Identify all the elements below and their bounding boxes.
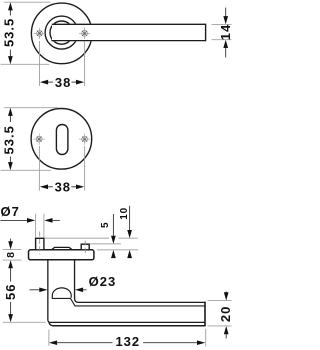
dimension 53.5 top view [2, 2, 17, 64]
dimension 14 extension lines [212, 23, 232, 25]
extension line 38 right (middle view) [84, 146, 86, 191]
svg-text:132: 132 [115, 334, 140, 349]
lever bar top edge [52, 23, 206, 25]
svg-text:Ø23: Ø23 [89, 274, 117, 289]
svg-text:20: 20 [218, 306, 232, 322]
dimension 56 [3, 267, 18, 322]
dimension 38 top view [40, 75, 84, 90]
middle rose circle [31, 109, 92, 170]
dimension 8 extension lines [3, 249, 22, 251]
extension line 38 right (top view) [84, 41, 86, 86]
dimension 5 shaft/arrows [111, 214, 116, 258]
screw symbol middle-left [34, 133, 45, 144]
centre boss bump [52, 247, 72, 249]
left fixing lug [36, 238, 44, 250]
top rose outer circle [31, 3, 92, 64]
extension line top 53.5 lower [1, 63, 50, 65]
hub outer ring [45, 16, 78, 49]
dimension 10 shaft/arrows [127, 206, 132, 258]
svg-text:5: 5 [100, 222, 111, 228]
svg-text:38: 38 [55, 75, 71, 90]
dia 7 dimension line + arrows [1, 218, 60, 223]
extension line top 53.5 upper [4, 1, 51, 3]
neck left + grip bottom inner line [48, 260, 205, 323]
extension line 38 left (middle view) [38, 146, 40, 191]
extension line 38 left (top view) [39, 41, 41, 86]
screw symbol middle-right [79, 133, 90, 144]
extension line middle 53.5 lower [1, 169, 52, 171]
extension line lever bottom (56 ref) [3, 321, 46, 323]
neck right + grip top outer line [75, 260, 206, 303]
svg-text:14: 14 [218, 24, 232, 40]
right fixing lug [81, 244, 89, 250]
svg-text:53.5: 53.5 [2, 125, 17, 154]
screw symbol top-right [79, 28, 90, 39]
grip end dome [52, 288, 71, 298]
dimension 14 [218, 8, 233, 58]
svg-text:56: 56 [3, 284, 18, 300]
grip bottom outer line [49, 323, 205, 326]
hub inner ring [50, 21, 73, 44]
extension line middle 53.5 upper [4, 107, 58, 109]
extension line y=238 (10 upper ref) [44, 237, 138, 239]
lever bar bottom edge [51, 40, 205, 42]
dimension 38 middle view [40, 180, 84, 195]
extension line y=250 (plate top ref) [97, 249, 138, 251]
dimension 8 [5, 239, 17, 269]
extension line y=244 (5 upper ref) [90, 243, 121, 245]
dia 7 extension lines [35, 214, 37, 238]
svg-text:10: 10 [119, 207, 130, 220]
dia 23 leader arrows [30, 287, 87, 292]
svg-text:53.5: 53.5 [2, 18, 17, 47]
dimension 132 [49, 334, 205, 349]
shoulder + inner top line [52, 298, 204, 306]
grip end cap (plan) [204, 302, 206, 327]
dimension 20 [218, 292, 233, 339]
keyhole slot [56, 125, 68, 155]
svg-text:Ø7: Ø7 [1, 204, 20, 219]
dimension 132 extension lines [48, 330, 50, 346]
lever bar white fill [52, 24, 206, 42]
left lug centerline [39, 232, 41, 255]
svg-text:8: 8 [5, 252, 17, 258]
rose plate (plan view) [29, 250, 94, 260]
svg-text:38: 38 [55, 180, 71, 195]
right lug centerline [84, 241, 86, 255]
lever bar end cap [205, 24, 207, 42]
screw symbol top-left [34, 28, 45, 39]
dimension 20 extension lines [208, 300, 232, 302]
dimension 53.5 middle view [2, 108, 17, 171]
